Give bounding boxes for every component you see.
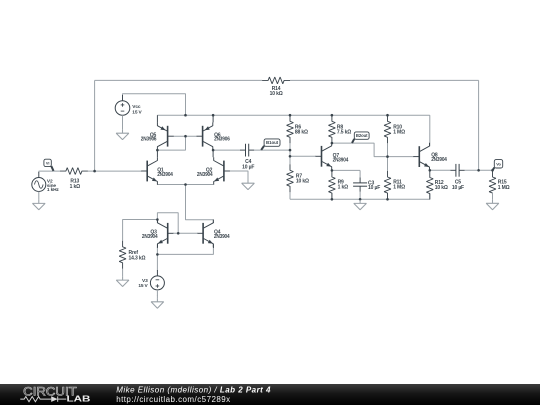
svg-text:10 µF: 10 µF — [242, 164, 254, 170]
node R6 rail junction — [289, 114, 292, 117]
wire feedback top horizontal right of R14 — [290, 79, 479, 81]
node Q8 base junction — [386, 155, 389, 158]
node Q3 collector junction — [156, 218, 159, 221]
wire R15 bottom — [492, 193, 494, 200]
node C3 rail junction — [359, 198, 362, 201]
node R15 top junction — [491, 169, 494, 172]
node Q7 base junction — [289, 155, 292, 158]
wire C3 bottom stub — [359, 192, 361, 200]
capacitor C4 — [240, 144, 254, 171]
resistor R10 — [384, 115, 405, 143]
svg-text:2N3904: 2N3904 — [431, 157, 447, 163]
node output feedback junction — [477, 169, 480, 172]
flag Vi — [44, 159, 54, 171]
wire feedback top horizontal left of R14 — [95, 79, 263, 81]
svg-text:Vi: Vi — [46, 160, 49, 165]
resistor Rref — [119, 241, 145, 269]
voltage source V3 — [138, 270, 164, 296]
svg-text:1 MΩ: 1 MΩ — [393, 185, 405, 191]
wire Q2 base to ground — [229, 171, 248, 182]
wire Q3 collector loop — [157, 213, 178, 234]
svg-text:LAB: LAB — [67, 394, 91, 403]
svg-text:2N3904: 2N3904 — [214, 234, 230, 240]
node Q7 collector junction — [331, 142, 334, 145]
svg-text:1 kHz: 1 kHz — [47, 187, 60, 193]
svg-text:10 µF: 10 µF — [452, 185, 464, 191]
svg-text:15 V: 15 V — [132, 110, 142, 116]
wire Rref bottom — [122, 269, 124, 277]
wire Q7 collector to Q8 base node — [332, 143, 388, 157]
svg-text:1 MΩ: 1 MΩ — [393, 130, 405, 136]
ground below Rref — [116, 277, 129, 287]
node Vcc rail junction — [184, 114, 187, 117]
svg-text:15 V: 15 V — [138, 283, 148, 289]
svg-text:14.3 kΩ: 14.3 kΩ — [129, 256, 146, 262]
svg-text:10 µF: 10 µF — [368, 185, 380, 191]
svg-text:2N3906: 2N3906 — [214, 137, 230, 143]
svg-text:2N3904: 2N3904 — [197, 172, 213, 178]
transistor Q8 2N3904 — [413, 143, 447, 171]
wire R8 bottom to Q7 collector — [331, 142, 333, 144]
node R10 rail junction — [386, 114, 389, 117]
node Q6 collector junction — [212, 149, 215, 152]
transistor Q1 2N3904 — [141, 150, 173, 185]
wire feedback right vertical — [478, 80, 480, 170]
svg-text:Mike Ellison (mdellison) / Lab: Mike Ellison (mdellison) / Lab 2 Part 4 — [116, 386, 271, 395]
node Q7 emitter junction — [331, 169, 334, 172]
voltage source Vcc — [115, 95, 142, 121]
transistor Q7 2N3904 — [316, 143, 349, 171]
wire Vcc bottom — [122, 121, 124, 130]
svg-text:1 kΩ: 1 kΩ — [70, 184, 81, 190]
node V3 junction — [156, 253, 159, 256]
wire C4 left — [213, 149, 240, 151]
svg-text:7.5 kΩ: 7.5 kΩ — [337, 130, 351, 136]
flag Vo — [493, 160, 503, 171]
transistor Q3 2N3904 — [142, 220, 168, 249]
resistor R15 — [489, 171, 510, 199]
svg-text:http://circuitlab.com/c57289x: http://circuitlab.com/c57289x — [116, 395, 230, 404]
node R8 rail junction — [331, 114, 334, 117]
wire R9 bottom — [331, 193, 333, 199]
wire bottom rail stage2-3 — [290, 198, 430, 200]
node Q5 collector junction — [156, 149, 159, 152]
svg-text:88 kΩ: 88 kΩ — [295, 130, 308, 136]
node Q6 emitter rail junction — [212, 114, 215, 117]
node C4 R6 junction — [289, 149, 292, 152]
wire R7 bottom — [289, 192, 291, 199]
wire Q8 base — [388, 156, 414, 158]
wire Q3 collector to Rref — [123, 220, 158, 241]
svg-text:B2out: B2out — [356, 133, 368, 138]
node Q3 base loop junction — [177, 232, 180, 235]
svg-text:B1out: B1out — [266, 140, 279, 145]
ground below V2 — [33, 200, 46, 210]
resistor R14 — [262, 77, 290, 97]
node R9 rail junction — [331, 198, 334, 201]
capacitor C5 — [450, 164, 464, 191]
resistor R8 — [329, 115, 352, 143]
ground below V3 — [151, 298, 164, 308]
node input junction — [93, 170, 96, 173]
wire V2 top to R13 — [39, 171, 60, 172]
ground below R15 — [486, 200, 499, 210]
wire R11 bottom — [387, 193, 389, 199]
svg-text:2N3904: 2N3904 — [157, 172, 173, 178]
wire Q5 Q6 base link middle — [173, 135, 197, 137]
node Q5 base junction — [184, 135, 187, 138]
node R11 rail junction — [386, 198, 389, 201]
wire mirror emitter rail — [157, 248, 213, 255]
wire C3 top stub — [359, 170, 361, 177]
resistor R12 — [426, 172, 448, 200]
resistor R6 — [287, 115, 308, 143]
svg-text:10 kΩ: 10 kΩ — [270, 91, 283, 97]
voltage source V2 sine — [32, 172, 60, 200]
wire Q7 base — [290, 155, 316, 157]
capacitor C3 — [353, 177, 380, 191]
resistor R9 — [329, 171, 349, 199]
wire R12 bottom — [429, 194, 431, 200]
footer bar — [0, 384, 540, 405]
ground below C3 — [354, 200, 367, 210]
svg-text:Vcc: Vcc — [132, 104, 141, 110]
svg-text:10 kΩ: 10 kΩ — [296, 179, 309, 185]
wire tail down to mirror — [186, 185, 214, 223]
wire feedback top-left vertical — [94, 80, 96, 171]
svg-text:1 kΩ: 1 kΩ — [338, 185, 349, 191]
wire Q5 diode connection — [157, 136, 185, 150]
wire C4 right to R6 node — [254, 149, 290, 151]
flag B2out — [352, 132, 369, 143]
flag B1out — [261, 139, 280, 150]
svg-text:2N3904: 2N3904 — [142, 234, 158, 240]
resistor R11 — [384, 171, 405, 199]
resistor R7 — [287, 164, 309, 192]
ground below Vcc — [116, 130, 129, 140]
svg-text:2N3906: 2N3906 — [141, 137, 157, 143]
wire Vcc top loop — [123, 94, 186, 116]
wire rail to V3 — [156, 254, 158, 270]
ground below Q2 base — [242, 180, 255, 190]
transistor Q5 2N3906 — [141, 115, 174, 150]
wire mirror top rail — [157, 114, 429, 116]
transistor Q2 2N3904 — [197, 150, 230, 185]
wire R13 to Q1 base — [88, 170, 142, 172]
transistor Q6 2N3906 — [197, 115, 230, 150]
wire Q8 emitter to C5 — [430, 169, 451, 171]
wire Q8 collector from rail — [429, 115, 431, 146]
wire emitter tail rail — [157, 184, 213, 186]
logo wire resistor diode glyph — [20, 396, 66, 401]
node Q8 emitter junction — [429, 169, 432, 172]
wire R10 bottom — [387, 143, 389, 156]
wire R11 top — [387, 157, 389, 171]
transistor Q4 2N3904 — [203, 220, 230, 249]
svg-text:1 MΩ: 1 MΩ — [498, 185, 510, 191]
wire V3 bottom — [156, 295, 158, 298]
node emitter tail junction — [184, 183, 187, 186]
resistor R13 — [60, 168, 88, 190]
svg-text:2N3904: 2N3904 — [333, 157, 349, 163]
wire Q7 emitter to C3 — [332, 169, 360, 171]
svg-text:Vo: Vo — [496, 161, 501, 166]
wire C5 to output node — [465, 169, 493, 171]
wire R6 bottom to R7 — [289, 143, 291, 164]
wire Q3 Q4 base rail — [168, 232, 174, 234]
svg-text:10 kΩ: 10 kΩ — [435, 185, 448, 191]
